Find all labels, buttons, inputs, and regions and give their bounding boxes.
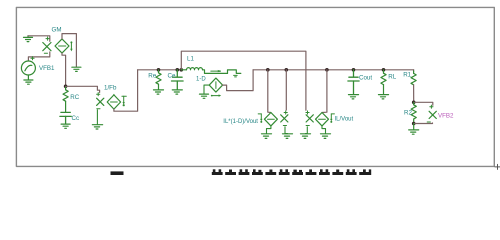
dependent source diamond2 IL/Vout [316, 113, 329, 126]
wire R2 bottom to VFB2 minus [414, 122, 433, 125]
ground (below Cout) [349, 95, 359, 99]
node diamond1 junction [266, 68, 270, 72]
svg-text:1-D: 1-D [196, 77, 206, 83]
resistor Re [156, 70, 161, 90]
minus mark (GM X) [44, 52, 47, 54]
ground (below diamond2) [321, 134, 331, 139]
ground (below Ce) [172, 90, 182, 94]
node A junction [64, 85, 68, 89]
svg-text:L1: L1 [187, 56, 194, 63]
plus mark (X2) [306, 111, 309, 114]
ground (top-left, GM + input) [24, 36, 33, 42]
node R1/R2 junction [412, 101, 416, 105]
caption character tops [212, 169, 371, 175]
ground (below Cc) [61, 124, 70, 128]
svg-text:R1: R1 [403, 72, 411, 79]
multiplier X (1/Fb) [97, 98, 104, 105]
multiplier X1 [281, 115, 288, 122]
wire bus to diamond1 [268, 70, 271, 113]
ground (below diamond1) [262, 134, 272, 139]
wire node to VFB2 plus [414, 102, 433, 105]
ground (below 1/Fb X) [92, 125, 102, 129]
wire diamond2 to ground [322, 126, 326, 134]
wire bus to X1 [285, 70, 287, 110]
wire X minus to ground [96, 110, 98, 125]
current arrow (diamond2) [330, 114, 334, 123]
resistor R1 [411, 71, 416, 102]
svg-text:GM: GM [52, 27, 62, 34]
capacitor Ce [172, 70, 184, 90]
dependent source diamond1 IL*(1-D)/Vout [264, 113, 277, 126]
svg-text:IL*(1-D)/Vout: IL*(1-D)/Vout [223, 119, 258, 125]
svg-text:Cout: Cout [359, 74, 372, 81]
switch (bump) [228, 70, 241, 74]
wire node A to 1/Fb X input [66, 86, 100, 92]
corner register mark [495, 164, 500, 169]
minus mark (VFB2) [427, 121, 430, 123]
minus mark (X1) [283, 125, 286, 127]
switch marks [234, 75, 238, 77]
wire L1 to switch [203, 70, 228, 74]
multiplier X (VFB2) [429, 111, 436, 118]
node L1 junction [180, 68, 184, 72]
svg-text:VFB1: VFB1 [39, 65, 55, 72]
wire main bus right segment [253, 69, 414, 71]
ground (below X2) [301, 134, 311, 139]
svg-text:Cc: Cc [72, 115, 80, 122]
wire X(GM) to VFB1 [28, 52, 49, 61]
plus mark (X1) [284, 111, 287, 114]
wire diamond1 to ground [267, 126, 271, 134]
plus mark (VFB1) [31, 57, 34, 60]
svg-text:1/Fb: 1/Fb [104, 84, 117, 91]
svg-text:Ce: Ce [168, 73, 176, 80]
node RL junction [382, 68, 386, 72]
multiplier X (GM input) [43, 43, 51, 51]
minus mark (X2) [306, 125, 309, 127]
ground (below RL) [379, 95, 389, 99]
wire bus to diamond2 [322, 70, 327, 113]
wire 1-D left to ground [204, 85, 209, 94]
plus mark (GM X) [46, 37, 49, 40]
wire GM bottom to node A [62, 53, 66, 86]
inductor L1 [181, 68, 202, 70]
plus mark (VFB2) [430, 105, 433, 108]
current arrow (diamond1) [258, 114, 262, 123]
resistor RL [381, 70, 386, 95]
dependent source 1/Fb (diamond) [107, 95, 120, 109]
node Re junction [157, 68, 161, 72]
dependent source GM (diamond) [55, 39, 69, 53]
capacitor Cc [60, 112, 71, 124]
svg-text:R2: R2 [404, 110, 412, 117]
ground (below X1) [283, 134, 293, 139]
dependent source 1-D (diamond) [209, 78, 222, 92]
wire X2 to ground [306, 127, 308, 134]
multiplier X2 [306, 115, 313, 122]
minus mark (1/Fb X) [97, 108, 100, 110]
node diamond2 junction [325, 68, 329, 72]
voltage source VFB1 [21, 61, 35, 75]
wire ground to GM + input [28, 36, 50, 42]
ground (1-D left) [200, 94, 209, 98]
current arrow (1-D) [211, 94, 221, 96]
wire 1-D right to bus [223, 70, 254, 91]
current arrow (1/Fb) [114, 94, 126, 106]
svg-text:RL: RL [388, 73, 396, 80]
node Cout junction [352, 68, 356, 72]
wire main bus left segment [138, 69, 182, 71]
ground (below R2) [409, 124, 419, 135]
wire bus corner into R1 [413, 70, 415, 71]
svg-text:VFB2: VFB2 [438, 112, 454, 119]
ground (below Re) [154, 90, 164, 94]
ground (below VFB1) [24, 75, 33, 84]
wire X1 to ground [285, 127, 288, 134]
ground (GM top path) [72, 67, 81, 71]
current arrow (inductor current) [211, 70, 221, 72]
resistor R2 [411, 102, 416, 123]
svg-text:RC: RC [70, 94, 79, 101]
node Ce junction [176, 68, 180, 72]
node R2 bottom junction [412, 122, 416, 126]
wire GM top to ground [62, 34, 76, 67]
wire upper bus [181, 51, 306, 110]
current arrow (GM) [70, 41, 72, 51]
node X1 junction [285, 68, 289, 72]
plus mark (1/Fb X) [97, 93, 100, 96]
border frame [16, 7, 494, 166]
svg-text:IL/Vout: IL/Vout [335, 116, 354, 122]
resistor RC [63, 86, 68, 112]
svg-text:Re: Re [148, 73, 156, 80]
wire 1/Fb bottom to bus corner [114, 70, 138, 111]
capacitor Cout [348, 70, 359, 95]
caption 图 [111, 171, 124, 175]
